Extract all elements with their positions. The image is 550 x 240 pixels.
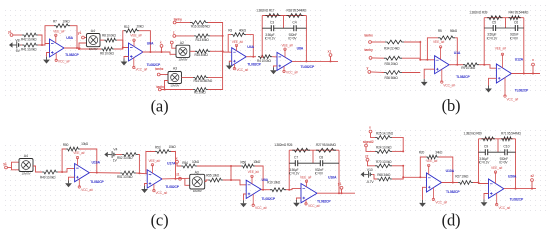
junction RC left column b (483, 64, 485, 66)
svg-text:z1: z1 (176, 173, 179, 177)
junction rail mid c (230, 165, 232, 167)
node A2 top input terminal (170, 41, 173, 44)
wire bus to U4A inv input (223, 51, 232, 53)
capacitor C5 (487, 20, 499, 40)
svg-text:C5: C5 (492, 20, 496, 24)
svg-text:R9 10.0kΩ: R9 10.0kΩ (461, 66, 476, 70)
wire U10A output (442, 182, 459, 184)
svg-text:20kΩ: 20kΩ (137, 24, 145, 28)
svg-text:TL082CP: TL082CP (515, 88, 529, 92)
svg-text:y1: y1 (78, 31, 82, 35)
junction x1 stub (330, 60, 332, 62)
ref label R54 (182, 161, 188, 165)
svg-text:IC=0.1V: IC=0.1V (479, 161, 491, 165)
svg-text:R42 10.0kΩ: R42 10.0kΩ (21, 38, 37, 42)
value label R5 (450, 29, 458, 33)
wire U6A feedback right (139, 31, 150, 52)
junction R8/R6 bus (122, 47, 124, 49)
resistor R27 (316, 148, 336, 152)
svg-text:R8 10.0kΩ: R8 10.0kΩ (102, 34, 117, 38)
value label R17 (256, 8, 274, 12)
svg-text:VCC_a#: VCC_a# (136, 68, 148, 72)
ref label R56 (241, 161, 247, 165)
value label R15 (195, 53, 209, 57)
svg-text:1.382mΩ R17: 1.382mΩ R17 (256, 8, 274, 12)
svg-text:TL082CP: TL082CP (301, 65, 315, 69)
resistor R2 (193, 88, 208, 92)
svg-text:VEE_a#: VEE_a# (300, 176, 312, 180)
svg-text:R20: R20 (419, 151, 425, 155)
wire R24 to bus d (392, 150, 403, 152)
junction z2 stub d (531, 188, 533, 190)
value label R56 (253, 160, 261, 164)
svg-text:IC=0.1V: IC=0.1V (289, 172, 301, 176)
wire R13 to bus (210, 35, 223, 37)
junction x terminal (161, 51, 163, 53)
wire A4 bottom input (79, 43, 87, 49)
svg-text:1.382mΩ R26: 1.382mΩ R26 (274, 143, 292, 147)
wire tanhz to A3 (160, 74, 168, 76)
resistor R26 (292, 148, 310, 152)
wire U19A noninv to ground (69, 177, 75, 180)
wire R25 to bus d (392, 137, 403, 151)
value label R8 (102, 34, 117, 38)
svg-text:R27 95.544MΩ: R27 95.544MΩ (316, 143, 336, 147)
resistor R51 (120, 171, 136, 175)
junction U6A feedback out (149, 51, 151, 53)
wire node to U5A inv input (38, 44, 50, 46)
svg-text:(b): (b) (442, 96, 461, 115)
svg-text:VCC_a#: VCC_a# (156, 191, 168, 195)
wire U9A feedback right (255, 166, 263, 190)
svg-text:TL082CP: TL082CP (262, 197, 276, 201)
ref label R3 (228, 29, 232, 33)
svg-text:U8A: U8A (297, 46, 304, 50)
svg-text:C6: C6 (514, 20, 518, 24)
wire U19A feedback left (62, 149, 66, 172)
svg-text:VCC_a#: VCC_a# (255, 206, 267, 210)
svg-text:R6 10.0kΩ: R6 10.0kΩ (100, 52, 115, 56)
wire A3 bottom input c (185, 179, 190, 186)
svg-text:10kΩ: 10kΩ (192, 160, 200, 164)
ref label R53 (155, 146, 161, 150)
svg-text:U19A: U19A (92, 161, 101, 165)
value label R4 (257, 59, 272, 63)
svg-text:10kΩ: 10kΩ (81, 142, 89, 146)
svg-text:R24 10.0kΩ: R24 10.0kΩ (376, 146, 392, 150)
resistor R70 (375, 164, 392, 168)
wire bus d to U10A inv (403, 176, 426, 178)
junction V4/R51 node (138, 172, 140, 174)
op-amp U19A (73, 151, 104, 192)
wire U6A noninv to ground (124, 57, 129, 59)
ground at U6A (121, 59, 128, 66)
svg-text:VEE_a#: VEE_a# (282, 44, 294, 48)
svg-text:TL082CP: TL082CP (165, 185, 179, 189)
op-amp U10A (426, 159, 460, 204)
ground at U17A (141, 186, 148, 193)
resistor R5 (438, 36, 455, 40)
value label R35 (385, 62, 399, 66)
junction RC right column a (305, 60, 307, 62)
svg-text:A3: A3 (173, 66, 177, 70)
svg-text:R4 10.0kΩ: R4 10.0kΩ (257, 59, 272, 63)
svg-text:VEE_a#: VEE_a# (73, 151, 85, 155)
svg-text:V10: V10 (367, 168, 373, 172)
svg-text:U6A: U6A (147, 42, 154, 46)
svg-text:(d): (d) (442, 211, 461, 230)
wire y1 to R42 (13, 34, 22, 36)
op-amp U9A (246, 170, 276, 210)
svg-text:VEE_a#: VEE_a# (491, 166, 503, 170)
caption (d) (442, 211, 461, 230)
ground at V4 (104, 152, 110, 158)
svg-text:40kΩ: 40kΩ (239, 28, 247, 32)
junction U5A feedback (76, 47, 78, 49)
op-amp U4A (232, 40, 262, 72)
value label R34 (384, 47, 400, 51)
capacitor C10 (499, 145, 509, 165)
value label R27 (316, 143, 336, 147)
node x1 output terminal (328, 49, 332, 56)
wire R49 to U19A inv (58, 169, 75, 172)
wire R19 to U16A inv (286, 189, 301, 190)
resistor R6 (101, 47, 114, 51)
wire R2 to bus and bus vertical (208, 51, 223, 89)
svg-text:R40 95.544MΩ: R40 95.544MΩ (509, 11, 529, 15)
svg-text:z2: z2 (531, 174, 535, 178)
value label R19 (267, 181, 281, 185)
wire (d) cap branch (479, 151, 516, 153)
svg-text:VEE_a#: VEE_a# (433, 40, 445, 44)
svg-text:-5.7V: -5.7V (366, 180, 374, 184)
resistor R69 (482, 137, 496, 141)
resistor R40 (509, 16, 521, 20)
svg-text:U4A: U4A (247, 45, 254, 49)
wire V8 to R41 (21, 44, 22, 46)
wire (c) RC left column (288, 150, 290, 190)
svg-text:U1A: U1A (454, 51, 461, 55)
value label R42 (21, 38, 37, 42)
junction R55/R56 node (230, 179, 232, 181)
ground at U19A (65, 180, 72, 187)
svg-text:1.382mΩ R39: 1.382mΩ R39 (469, 11, 487, 15)
wire U6A output to A2 (143, 52, 177, 54)
wire (d) RC mid column (497, 139, 499, 152)
ref label R50 (63, 143, 69, 147)
wire tanhx to R34 (371, 41, 385, 43)
svg-text:10V/0V: 10V/0V (178, 58, 187, 62)
caption (c) (151, 211, 169, 230)
resistor R68 (377, 177, 392, 181)
svg-text:10V/0V: 10V/0V (193, 189, 202, 193)
value label R41 (21, 48, 37, 52)
svg-text:VCC_a#: VCC_a# (435, 200, 447, 204)
wire (d) RC right column (515, 139, 517, 189)
svg-text:U16A: U16A (328, 176, 337, 180)
node y1 input terminal c (3, 162, 7, 169)
svg-text:VEE_a#: VEE_a# (232, 40, 244, 44)
capacitor C3 (265, 21, 277, 41)
wire A4 out to R49 (33, 166, 42, 172)
svg-text:x: x (160, 40, 162, 44)
svg-text:x: x (532, 58, 534, 62)
ground at U1A (421, 79, 428, 86)
wire U1A output (449, 64, 463, 66)
node z1 terminal (179, 177, 182, 180)
wire R6 to U6A inv input (114, 48, 129, 50)
svg-text:VCC_a#: VCC_a# (499, 206, 511, 210)
svg-text:R3: R3 (228, 29, 232, 33)
resistor R20 (426, 155, 439, 159)
svg-text:TL082CP: TL082CP (446, 190, 460, 194)
svg-text:1.382mΩ R69: 1.382mΩ R69 (464, 132, 482, 136)
wire (b) RC left column (483, 18, 485, 65)
svg-text:IC=0V: IC=0V (510, 36, 519, 40)
svg-text:V8: V8 (15, 38, 19, 42)
svg-text:R50: R50 (63, 143, 69, 147)
wire (d) RC left column (478, 139, 480, 183)
wire U17A feedback right (171, 152, 176, 179)
svg-text:A4: A4 (91, 29, 95, 33)
ref label R7 (53, 20, 57, 24)
junction A3 bottom input (164, 89, 166, 91)
svg-text:C8: C8 (319, 156, 323, 160)
node z2 output terminal d (531, 174, 535, 181)
wire U4A noninv to ground (229, 61, 231, 62)
resistor R50 (66, 147, 80, 151)
wire (a) RC left column (261, 16, 263, 57)
node tanhz input terminal (155, 67, 164, 76)
resistor R16 (190, 21, 208, 25)
wire R52 to bus c (138, 155, 139, 174)
wire x terminal stub b (532, 66, 534, 74)
resistor R12 (124, 29, 139, 33)
wire U1A feedback right (455, 38, 457, 65)
wire U6A feedback left (123, 31, 124, 48)
value label R3 (239, 28, 247, 32)
value label R25 (376, 132, 394, 136)
svg-text:10V/0V: 10V/0V (170, 84, 179, 88)
wire (c) RC mid column (312, 150, 314, 163)
junction RC left column c (288, 189, 290, 191)
value label R36 (385, 76, 399, 80)
svg-text:R14 30.867kΩ: R14 30.867kΩ (194, 79, 213, 83)
svg-text:VCC_a#: VCC_a# (443, 84, 455, 88)
resistor R53 (155, 150, 171, 154)
svg-text:IC=0V: IC=0V (499, 161, 508, 165)
node tanhy input terminal b (364, 48, 373, 59)
junction RC right column c (338, 192, 340, 194)
ground at U16A (293, 200, 300, 207)
wire U5A feedback left (45, 26, 54, 44)
junction U9A out fb (262, 189, 264, 191)
svg-text:IC=0.1V: IC=0.1V (487, 36, 499, 40)
op-amp U5A (50, 29, 80, 63)
svg-text:TL082CP: TL082CP (317, 199, 331, 203)
node y input terminal b (367, 66, 371, 73)
wire x to R54 (177, 163, 181, 166)
svg-text:C7: C7 (294, 156, 298, 160)
wire R9 to U12A inv (479, 65, 496, 69)
op-amp U6A (129, 33, 161, 71)
svg-text:U10A: U10A (446, 169, 455, 173)
svg-text:VEE_a#: VEE_a# (495, 47, 507, 51)
wire V4 to R52 (116, 154, 122, 156)
capacitor C4 (288, 21, 297, 41)
wire U8A output (292, 60, 338, 62)
wire z to R13 (176, 35, 194, 37)
resistor R24 (375, 150, 392, 154)
svg-text:signal2: signal2 (363, 140, 374, 144)
wire (a) RC right column (305, 16, 307, 62)
value label R39 (469, 11, 487, 15)
junction RC left column d (478, 182, 480, 184)
resistor R7 (54, 24, 70, 28)
value label R50 (81, 142, 89, 146)
wire U19A feedback right (80, 149, 97, 173)
wire U12A noninv to ground (489, 78, 497, 85)
wire (b) RC mid column (505, 18, 507, 28)
resistor R4 (258, 55, 272, 59)
svg-text:TL082CP: TL082CP (456, 75, 470, 79)
svg-text:TL082CP: TL082CP (65, 53, 79, 57)
junction U10A fb node (419, 176, 421, 178)
wire U4A feedback left (228, 35, 231, 53)
capacitor C8 (315, 156, 324, 176)
node x input terminal c (176, 156, 179, 163)
battery V8 (15, 38, 21, 52)
value label R2 (194, 91, 206, 95)
svg-text:tanhx: tanhx (364, 33, 373, 37)
wire R70 to bus d (392, 165, 403, 167)
value label R26 (274, 143, 292, 147)
wire A4 output to R8 (100, 39, 104, 41)
node x input terminal d (369, 126, 372, 133)
wire U9A feedback up (230, 166, 232, 180)
svg-text:R12: R12 (124, 25, 130, 29)
svg-text:x: x (176, 156, 178, 160)
junction U4A feedback out (252, 56, 254, 58)
wire (c) RC top rail (289, 149, 339, 151)
svg-text:R54: R54 (182, 161, 188, 165)
wire U26A output (504, 188, 536, 190)
svg-text:C10: C10 (503, 145, 509, 149)
wire R34 to bus b (404, 42, 420, 60)
svg-text:R13 40kΩ: R13 40kΩ (196, 38, 210, 42)
ground at U8A (270, 67, 277, 74)
junction U19A out fb (96, 172, 98, 174)
junction bus b top (419, 41, 421, 43)
wire x stub d (371, 133, 376, 138)
wire U4A feedback right (246, 35, 253, 57)
value label R69 (464, 132, 482, 136)
junction integrator input node a (261, 56, 263, 58)
svg-text:U26A: U26A (508, 174, 517, 178)
svg-text:R55 10kΩ: R55 10kΩ (206, 173, 220, 177)
resistor R42 (22, 33, 38, 37)
svg-text:R15 40kΩ: R15 40kΩ (195, 53, 209, 57)
ground at U12A (485, 86, 492, 93)
wire x terminal stub (161, 47, 163, 52)
wire R36 to bus b (402, 72, 420, 74)
svg-text:R16 30.867kΩ: R16 30.867kΩ (191, 25, 210, 29)
ground at U10A (419, 200, 426, 207)
resistor R36 (384, 71, 402, 75)
svg-text:56kΩ: 56kΩ (450, 29, 458, 33)
multiplier A2 (176, 41, 190, 61)
battery V4 (110, 148, 117, 163)
svg-text:VCC_a#: VCC_a# (507, 97, 519, 101)
wire U12A output (511, 73, 540, 75)
wire (b) cap branch (484, 27, 524, 29)
resistor R55 (208, 178, 223, 182)
svg-text:R34 22.4kΩ: R34 22.4kΩ (384, 47, 400, 51)
svg-text:C4: C4 (292, 21, 296, 25)
wire A2 top input (172, 44, 176, 48)
node y1 output terminal c (338, 182, 343, 189)
svg-text:R49 10.0kΩ: R49 10.0kΩ (40, 175, 56, 179)
multiplier A4 c (19, 154, 33, 176)
wire U10A feedback left (420, 157, 426, 177)
svg-text:R56: R56 (241, 161, 247, 165)
wire U5A output (64, 48, 101, 49)
wire R14 to bus (208, 77, 223, 79)
resistor R3 (231, 33, 246, 37)
svg-text:A4: A4 (24, 154, 28, 158)
svg-text:VCC_a#: VCC_a# (58, 59, 70, 63)
svg-text:R25 14.17kΩ: R25 14.17kΩ (376, 132, 394, 136)
wire A3 bottom input (165, 81, 169, 90)
value label R6 (100, 52, 115, 56)
svg-text:TL082CP: TL082CP (510, 197, 524, 201)
junction U10A out fb (452, 182, 454, 184)
resistor R17 (265, 14, 280, 18)
svg-text:VEE_a#: VEE_a# (130, 33, 142, 37)
wire U5A noninv to ground (47, 53, 50, 57)
wire signal2 stub d (366, 147, 375, 152)
ground at V8 (9, 42, 15, 48)
svg-text:x1: x1 (328, 49, 332, 53)
wire (c) cap branch (289, 162, 339, 164)
value label R71 (501, 132, 521, 136)
wire U16A noninv to ground (297, 198, 302, 200)
svg-text:R5: R5 (438, 29, 442, 33)
junction U19A inv node (61, 171, 63, 173)
wire R68 to bus d (392, 166, 403, 179)
net label z1 (176, 173, 179, 177)
value label R68 (377, 173, 391, 177)
junction bus d row3 (402, 165, 404, 167)
svg-text:10V/0V: 10V/0V (22, 172, 31, 176)
resistor R52 (122, 153, 138, 157)
svg-text:VCC_a#: VCC_a# (237, 68, 249, 72)
resistor R71 (501, 137, 513, 141)
value label R20 (435, 150, 443, 154)
svg-text:tanhy: tanhy (174, 17, 183, 21)
value label R55 (206, 173, 220, 177)
resistor R27 d (458, 181, 473, 185)
wire y1 split to A4 inputs (7, 167, 11, 169)
wire U5A feedback right (70, 26, 77, 48)
svg-text:R68 34kΩ: R68 34kΩ (377, 173, 391, 177)
svg-text:C3: C3 (270, 21, 274, 25)
svg-text:(a): (a) (151, 97, 169, 116)
node tanhy input terminal (173, 17, 182, 24)
junction bus row3 (222, 50, 224, 52)
junction bus row2 (222, 35, 224, 37)
wire (a) cap branch (262, 27, 306, 29)
